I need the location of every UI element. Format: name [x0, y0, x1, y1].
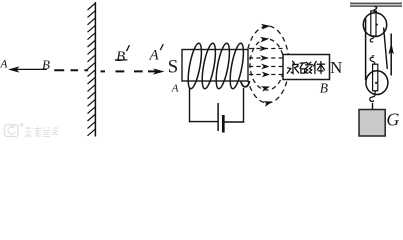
field straight dashed line 3: [249, 66, 283, 68]
field arrow outer bottom: [263, 101, 272, 107]
field straight dashed line 2: [249, 57, 283, 59]
field arrow outer top: [261, 24, 271, 30]
wall line: [94, 2, 96, 137]
wire bottom right: [225, 121, 245, 123]
watermark characters: [25, 127, 59, 138]
movable pulley bottom hook: [370, 91, 375, 102]
wall hatches: [88, 4, 96, 136]
arrow A-B solid: [14, 68, 47, 70]
field straight dashed line 1: [249, 48, 283, 50]
svg-text:A: A: [171, 82, 179, 94]
fixed pulley housing: [371, 11, 376, 36]
fixed pulley bottom hook: [370, 36, 373, 42]
svg-text:B: B: [116, 49, 125, 65]
battery short plate: [222, 115, 225, 133]
wire right vertical: [243, 88, 245, 123]
dashed line B to wall: [54, 69, 88, 71]
fixed pulley axle dot: [376, 24, 378, 26]
movable pulley housing: [373, 64, 378, 91]
movable pulley wheel: [366, 71, 388, 95]
fixed pulley wheel: [363, 13, 386, 37]
label 永: [287, 61, 298, 73]
weight link: [372, 103, 374, 110]
coil winding 3: [214, 42, 233, 89]
svg-text:A: A: [149, 47, 160, 63]
field arrow inner top: [260, 37, 270, 43]
watermark logo: [5, 123, 24, 137]
coil winding 1: [186, 42, 205, 89]
force arrow: [390, 34, 392, 76]
permanent magnet box: [283, 55, 330, 80]
movable pulley top hook: [370, 56, 375, 65]
svg-text:B: B: [42, 57, 50, 72]
weight G box: [359, 110, 385, 137]
rope right slanted: [384, 28, 388, 70]
coil winding 4: [228, 42, 247, 89]
wire left vertical: [189, 87, 191, 122]
label 磁: [300, 62, 312, 73]
wire bottom left: [189, 121, 218, 123]
ceiling hook: [374, 7, 377, 12]
field arrow inner bottom: [261, 86, 270, 92]
label 体: [314, 61, 325, 73]
movable pulley axle dot: [375, 82, 377, 84]
svg-text:A: A: [0, 59, 8, 71]
rope left: [365, 19, 367, 81]
battery long plate: [217, 103, 219, 131]
dashed line wall to coil with arrow: [101, 70, 157, 72]
field line outer ellipse: [246, 26, 289, 103]
coil winding 5 half-turn: [241, 81, 250, 87]
svg-text:S: S: [168, 57, 179, 78]
field straight dashed line 4: [249, 74, 283, 76]
svg-text:N: N: [330, 58, 342, 77]
svg-text:B: B: [320, 80, 328, 95]
ceiling bar: [350, 3, 402, 6]
coil winding 2: [200, 42, 219, 89]
field line inner ellipse: [250, 39, 284, 90]
svg-text:G: G: [386, 110, 399, 130]
coil core: [182, 50, 248, 82]
